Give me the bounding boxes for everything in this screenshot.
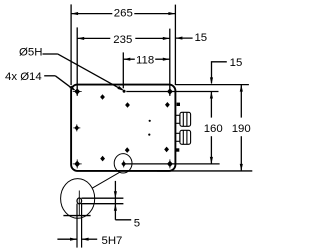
- top hole row centerline: [126, 91, 218, 93]
- svg-text:5H7: 5H7: [102, 235, 123, 247]
- mid-left hole: [73, 124, 80, 131]
- svg-text:265: 265: [114, 8, 133, 20]
- bottom hole row centerline: [125, 163, 220, 165]
- extension line 118 left: [122, 52, 124, 88]
- dimension 160: [210, 92, 213, 164]
- inner hole B3: [164, 147, 169, 153]
- corner hole bottom-right: [165, 159, 174, 168]
- dimension 235: [77, 37, 170, 40]
- inner hole B1: [100, 156, 105, 162]
- connector gland 2 neck: [175, 133, 180, 141]
- svg-text:118: 118: [136, 54, 154, 66]
- bottom edge extension right: [157, 170, 252, 172]
- detail slot line upper: [81, 197, 123, 199]
- corner hole top-left: [73, 87, 82, 96]
- dimension 5 vertical: [114, 181, 131, 220]
- svg-text:235: 235: [113, 34, 132, 46]
- extension line 235/118 right: [169, 29, 171, 96]
- dowel hole bottom in callout: [121, 160, 126, 167]
- extension line 235 left: [76, 27, 78, 95]
- leader 4x Ø14: [44, 76, 76, 91]
- inner hole T1: [100, 94, 105, 100]
- small hole dot upper: [149, 120, 151, 122]
- dimension 265: [71, 12, 175, 15]
- leader Ø5H: [43, 54, 125, 91]
- detail hole oval: [77, 198, 82, 204]
- connector gland 1 neck: [175, 115, 180, 123]
- dimension 5H7 horizontal: [57, 238, 97, 241]
- dowel hole top (under leader arrow): [123, 90, 126, 93]
- inner hole T2: [125, 102, 130, 108]
- extension line 265 left: [70, 4, 72, 85]
- dimension 118: [123, 58, 170, 61]
- dimension 190: [240, 85, 243, 171]
- small hole dot lower: [148, 134, 150, 136]
- callout leader to detail view: [93, 172, 120, 188]
- connector gland 1 body: [180, 112, 191, 126]
- detail bottom edge: [63, 215, 90, 217]
- detail slot line lower: [81, 203, 123, 205]
- corner hole top-right: [165, 87, 174, 96]
- detail view circle: [61, 179, 95, 219]
- svg-text:4x Ø14: 4x Ø14: [5, 71, 42, 83]
- top edge extension right: [175, 84, 249, 86]
- connector gland 2 body: [180, 130, 191, 144]
- svg-text:Ø5H: Ø5H: [19, 47, 42, 59]
- svg-text:190: 190: [232, 123, 251, 135]
- dimension 15 bracket right: [210, 62, 227, 85]
- corner hole bottom-left: [73, 159, 82, 168]
- svg-text:15: 15: [230, 57, 243, 69]
- svg-text:160: 160: [204, 123, 223, 135]
- detail callout circle on plate: [114, 154, 132, 173]
- extension line 265 right: [174, 5, 176, 85]
- svg-text:5: 5: [134, 218, 140, 230]
- detail hole wall extension right: [81, 204, 83, 248]
- edge tab square upper: [177, 103, 180, 106]
- svg-text:15: 15: [194, 32, 207, 44]
- plate outline: [71, 85, 175, 171]
- inner hole B2: [125, 147, 130, 153]
- edge tab square lower: [176, 148, 179, 151]
- detail hole wall extension left: [76, 204, 78, 248]
- detail hole centerline: [78, 191, 80, 216]
- dimension 15 top-right: [175, 37, 192, 40]
- inner hole T3: [165, 102, 170, 108]
